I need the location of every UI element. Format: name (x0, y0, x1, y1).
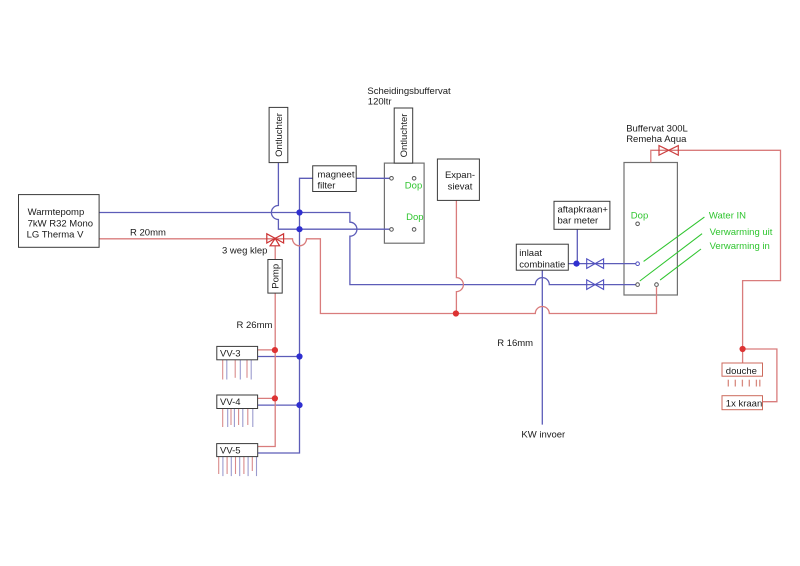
junction dot blue: VV-4 (296, 402, 302, 408)
valve: blue valve on Verwarming uit line (587, 280, 604, 290)
junction dot red: Expansievat / return (453, 310, 459, 316)
box: Ontluchter (left) (269, 107, 288, 162)
svg-text:120ltr: 120ltr (368, 96, 392, 107)
svg-text:Dop: Dop (406, 212, 423, 223)
box: VV-3 (217, 346, 258, 359)
green pointer line: Water IN (644, 217, 705, 261)
wire red: Expansievat drop (456, 200, 463, 313)
box: Buffervat 300L vessel (624, 163, 677, 296)
valve: 3 weg klep (267, 234, 284, 246)
box: douche (722, 363, 763, 376)
svg-text:Water IN: Water IN (709, 211, 746, 222)
floor loops VV-3 (223, 360, 252, 380)
svg-text:Ontluchter: Ontluchter (399, 114, 410, 158)
wire blue: magneet filter link and radiator return riser to VV-5 (258, 178, 313, 453)
port: Buffervat Verwarming uit (636, 283, 640, 287)
svg-text:7kW R32 Mono: 7kW R32 Mono (28, 218, 93, 229)
svg-text:R 20mm: R 20mm (130, 228, 166, 239)
svg-text:douche: douche (726, 366, 757, 377)
wire blue: VV-3 return stub (258, 356, 300, 358)
svg-text:LG Therma V: LG Therma V (27, 230, 85, 241)
svg-text:aftapkraan+: aftapkraan+ (558, 205, 609, 216)
svg-text:magneet: magneet (318, 170, 355, 181)
junction dot blue: inlaat combinatie / aftapkraan (573, 261, 579, 267)
wire blue: heat pump flow line from Warmtepomp to Buffervat (Verwarming uit) (99, 213, 636, 285)
wire blue: Ontluchter drop and return line to Scheidingsbuffervat (271, 163, 389, 230)
port: Buffervat Verwarming in (655, 283, 659, 287)
wire red: 3 weg klep riser through Pomp to VV-5 (258, 246, 276, 447)
port: Scheidingsbuffervat bottom-left (390, 228, 394, 232)
box: inlaat combinatie (516, 244, 568, 270)
svg-text:sievat: sievat (448, 182, 473, 193)
port: Scheidingsbuffervat bottom-right (Dop) (412, 228, 416, 232)
shower spray dashes under douche (728, 380, 760, 387)
svg-text:Dop: Dop (631, 210, 648, 221)
junction dot blue: return line / riser (296, 226, 302, 232)
svg-text:Dop: Dop (405, 180, 422, 191)
box: 1x kraan (722, 396, 763, 410)
wire blue: magneet filter to Scheidingsbuffervat port (356, 177, 390, 179)
svg-text:KW invoer: KW invoer (521, 430, 565, 441)
svg-text:Buffervat 300L: Buffervat 300L (626, 124, 688, 135)
wire red: Buffervat hot water out to douche (651, 150, 781, 363)
svg-text:Expan-: Expan- (445, 170, 475, 181)
green pointer line: Verwarming uit (640, 234, 702, 281)
junction dot red: douche branch (740, 346, 746, 352)
valve: Buffervat top red valve (659, 146, 678, 156)
junction dot red: VV-3 (272, 347, 278, 353)
box: Warmtepomp (19, 195, 100, 248)
svg-text:Pomp: Pomp (270, 264, 281, 289)
box: Pomp (268, 260, 282, 294)
box: VV-5 (217, 444, 258, 457)
svg-text:Remeha Aqua: Remeha Aqua (626, 134, 687, 145)
wire blue: inlaat combinatie to Buffervat Water IN (568, 263, 635, 265)
valve: blue valve on Water IN line (587, 259, 604, 269)
box: Scheidingsbuffervat vessel (384, 163, 424, 243)
port: Buffervat Dop (636, 222, 640, 226)
junction dot blue: HP flow / riser (296, 209, 302, 215)
box: Expansievat (437, 159, 479, 200)
svg-text:R 16mm: R 16mm (497, 338, 533, 349)
svg-text:filter: filter (318, 181, 336, 192)
junction dot blue: VV-3 (296, 353, 302, 359)
svg-text:VV-3: VV-3 (220, 349, 241, 360)
wire red: VV-3 supply stub (258, 349, 275, 351)
svg-text:3 weg klep: 3 weg klep (222, 246, 267, 257)
wire blue: aftapkraan drop (576, 229, 578, 263)
floor loops VV-4 (223, 409, 253, 428)
wire red: VV-4 supply stub (258, 397, 275, 399)
box: VV-4 (217, 395, 258, 409)
svg-text:Verwarming uit: Verwarming uit (710, 227, 773, 238)
svg-text:Ontluchter: Ontluchter (274, 113, 285, 157)
svg-text:1x kraan: 1x kraan (726, 398, 762, 409)
box: aftapkraan+ bar meter (554, 201, 610, 229)
junction dot red: VV-4 (272, 395, 278, 401)
floor loops VV-5 (219, 457, 257, 477)
svg-text:Warmtepomp: Warmtepomp (28, 207, 85, 218)
box: magneet filter (313, 166, 357, 192)
wire blue: KW invoer riser (541, 270, 543, 424)
port: Buffervat Water IN (636, 262, 640, 266)
box: Ontluchter (on vessel) (394, 108, 413, 163)
svg-text:VV-5: VV-5 (220, 446, 241, 457)
wire blue: VV-4 return stub (258, 404, 300, 406)
svg-text:Verwarming in: Verwarming in (710, 241, 770, 252)
port: Scheidingsbuffervat top-left (390, 177, 394, 181)
port: Scheidingsbuffervat top-right (Dop) (412, 177, 416, 181)
wire red: heat pump return from Warmtepomp through 3 weg klep to Buffervat Verwarming in (99, 239, 656, 314)
svg-text:bar meter: bar meter (558, 216, 599, 227)
wire red: branch to 1x kraan (743, 349, 777, 402)
svg-text:combinatie: combinatie (519, 259, 565, 270)
green pointer line: Verwarming in (660, 249, 701, 280)
svg-text:inlaat: inlaat (519, 248, 542, 259)
svg-text:VV-4: VV-4 (220, 397, 241, 408)
svg-text:R 26mm: R 26mm (237, 320, 273, 331)
